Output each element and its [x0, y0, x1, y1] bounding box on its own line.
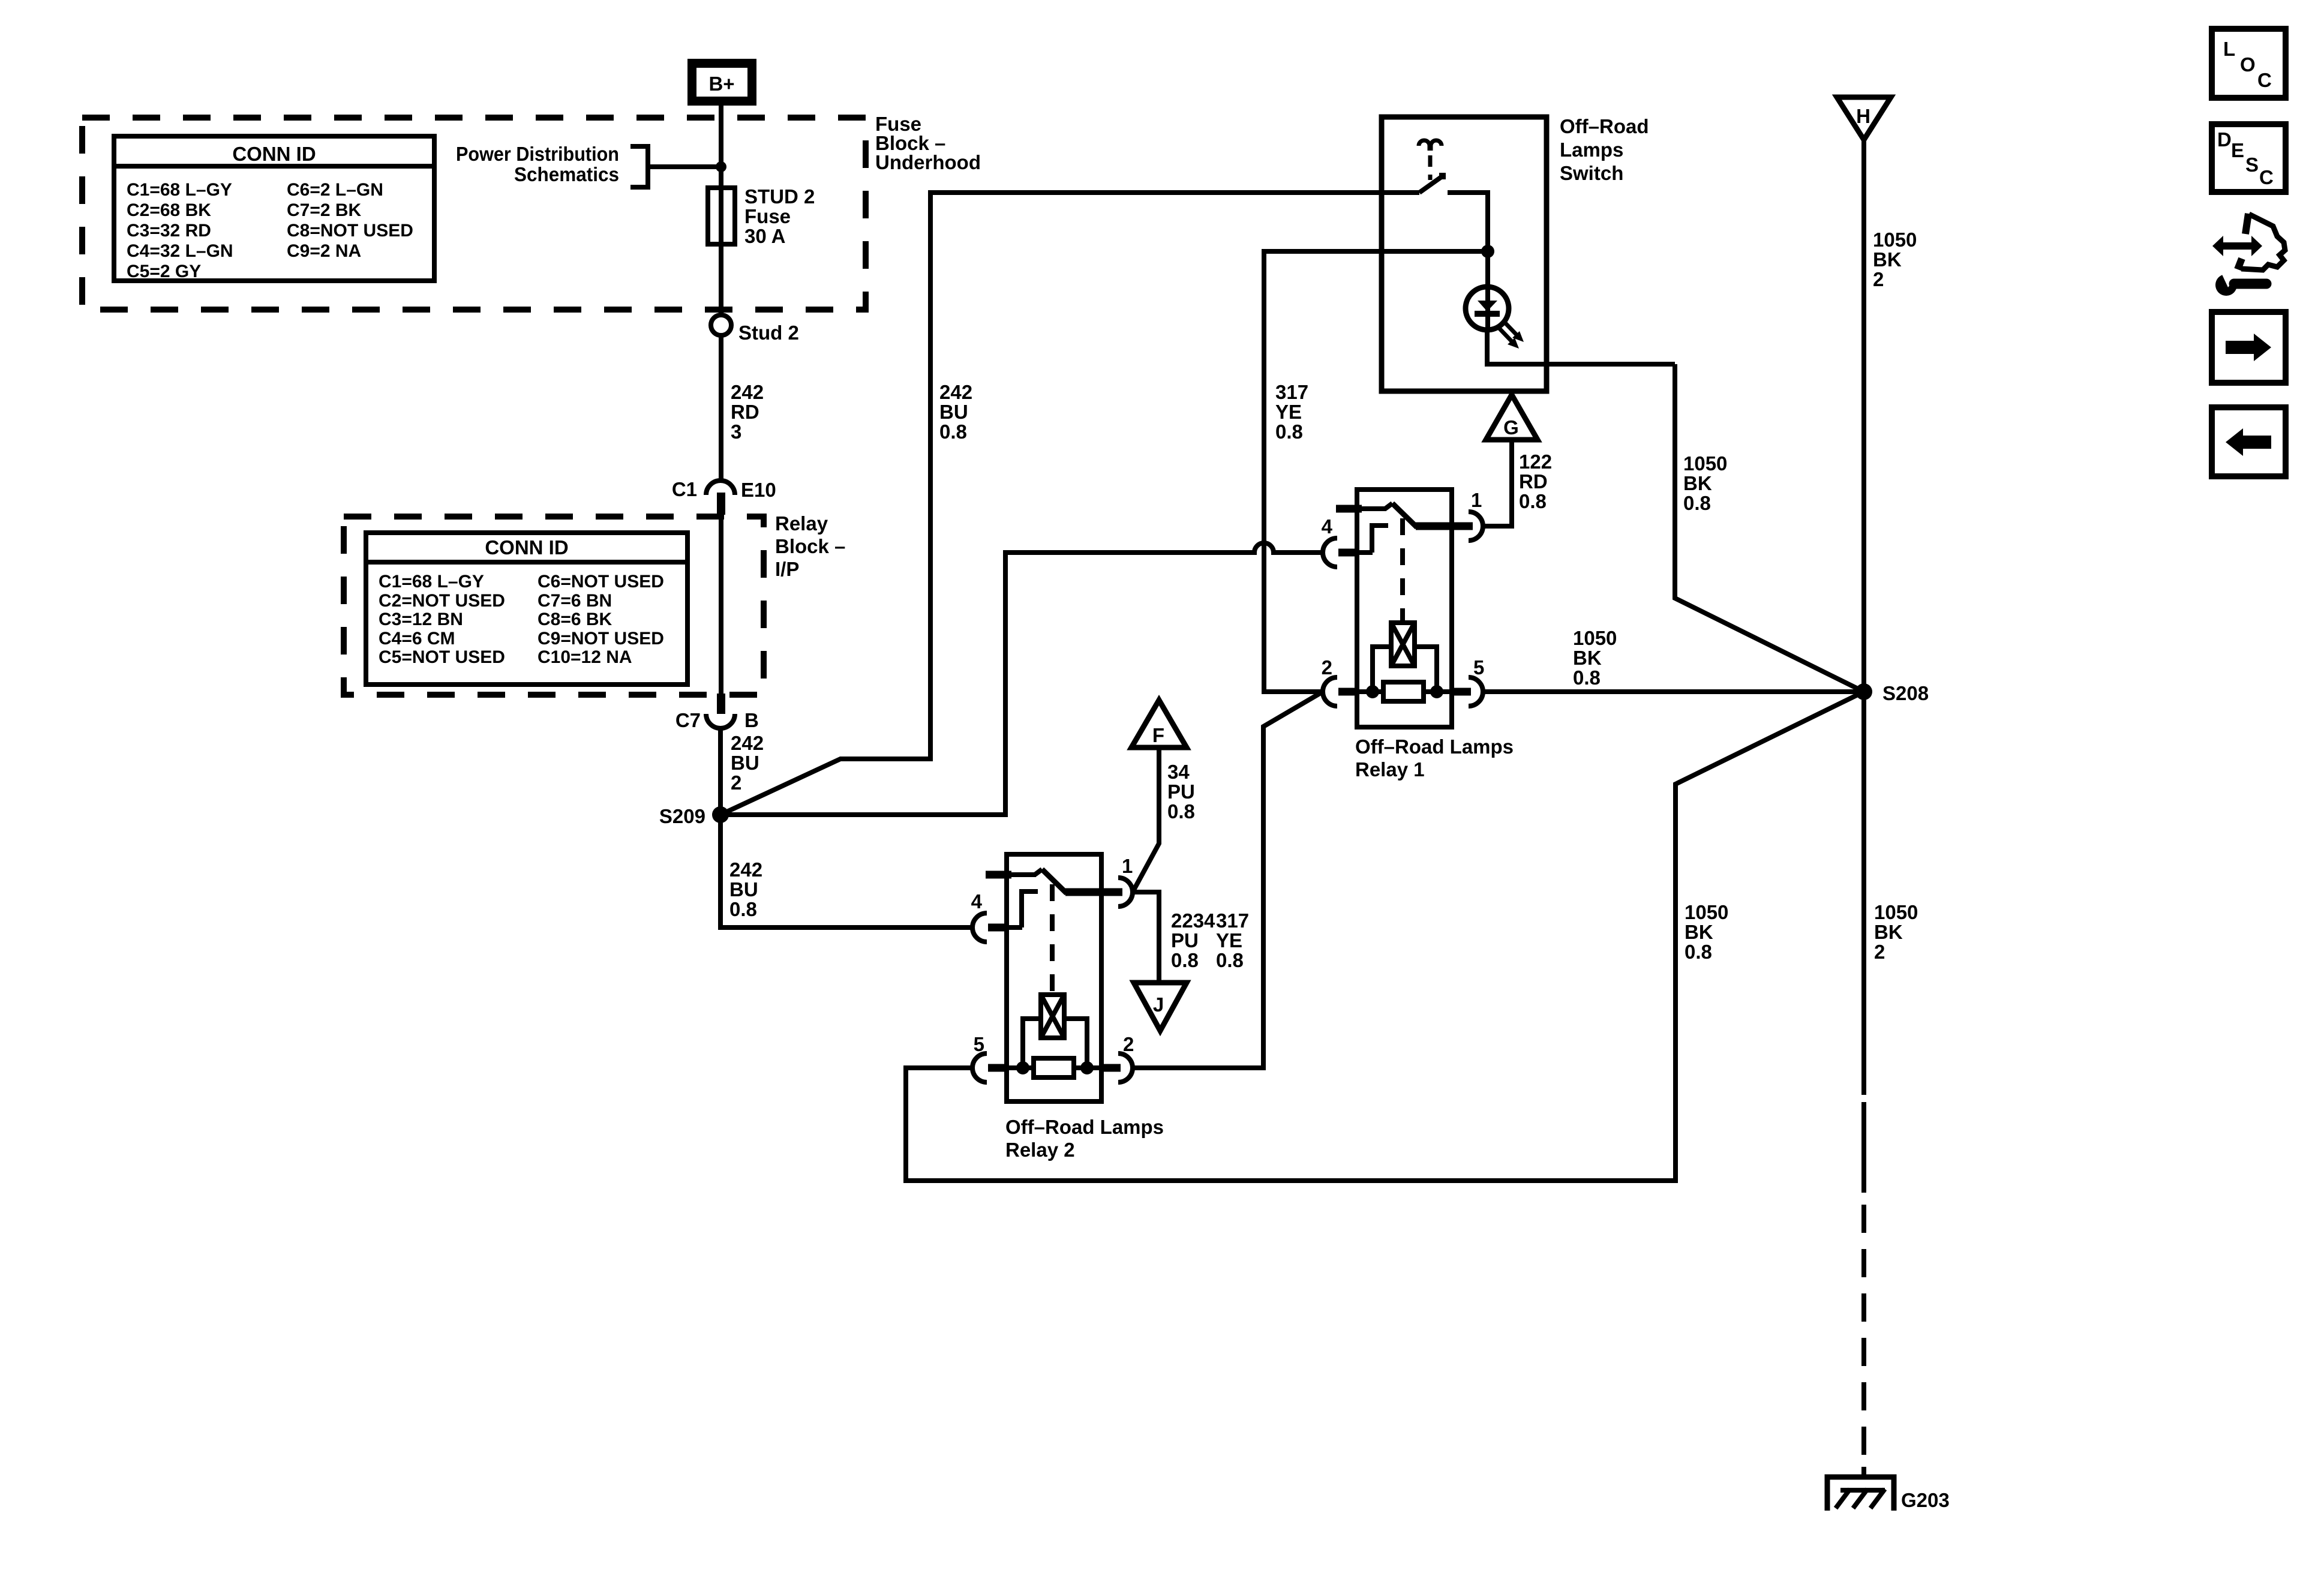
relay 1 (off-road lamps relay 1) — [1322, 489, 1514, 781]
svg-text:Off–Road: Off–Road — [1560, 115, 1649, 137]
junction dot on B+ feed — [716, 161, 726, 172]
wire B+ down through fuse to stud 2 — [719, 106, 723, 315]
connector H triangle — [1837, 97, 1891, 140]
svg-text:4: 4 — [1322, 515, 1333, 538]
power distribution schematics callout — [456, 143, 721, 187]
svg-text:2: 2 — [1873, 268, 1884, 290]
svg-text:E10: E10 — [741, 479, 776, 501]
stud 2 terminal — [711, 315, 799, 344]
label 122 RD 0.8 — [1519, 451, 1552, 512]
wire 317 YE: switch to relay 1 pin 2 — [1264, 251, 1488, 692]
svg-text:C3=12 BN: C3=12 BN — [379, 610, 463, 629]
wire S209 to off-road lamps switch (242 BU 0.8) — [720, 193, 1419, 815]
label 1050 BK 0.8 (switch return) — [1683, 452, 1727, 514]
relay block I/P dashed boundary — [344, 517, 764, 695]
connector G triangle — [1483, 395, 1538, 526]
off-road lamps switch box — [1382, 117, 1547, 391]
svg-text:2: 2 — [1123, 1033, 1134, 1055]
splice S208 — [1855, 682, 1929, 704]
svg-text:BK: BK — [1683, 472, 1712, 494]
svg-text:2: 2 — [1874, 941, 1885, 963]
label 34 PU 0.8 — [1167, 761, 1195, 822]
svg-text:1: 1 — [1122, 855, 1133, 877]
svg-text:Off–Road Lamps: Off–Road Lamps — [1355, 736, 1514, 758]
svg-text:C3=32 RD: C3=32 RD — [127, 221, 211, 241]
svg-text:1050: 1050 — [1685, 901, 1728, 923]
svg-text:0.8: 0.8 — [1519, 490, 1547, 512]
svg-text:Relay 1: Relay 1 — [1355, 758, 1425, 781]
svg-text:PU: PU — [1171, 929, 1199, 951]
switch detent symbol — [1419, 140, 1442, 180]
svg-text:BK: BK — [1573, 647, 1602, 669]
svg-text:RD: RD — [1519, 470, 1548, 493]
svg-text:C10=12 NA: C10=12 NA — [538, 647, 632, 667]
svg-text:0.8: 0.8 — [1216, 949, 1244, 971]
connector C1 / E10 — [672, 478, 776, 515]
svg-text:S209: S209 — [659, 805, 705, 827]
svg-text:2: 2 — [1322, 656, 1332, 679]
svg-text:C1=68 L–GY: C1=68 L–GY — [379, 572, 484, 592]
svg-text:1050: 1050 — [1873, 229, 1917, 251]
svg-text:2234: 2234 — [1171, 909, 1215, 932]
svg-text:C4=32 L–GN: C4=32 L–GN — [127, 241, 233, 261]
svg-text:0.8: 0.8 — [939, 421, 967, 443]
label 1050 BK 0.8 (relay 2 return) — [1685, 901, 1728, 963]
connector J triangle — [1134, 983, 1187, 1031]
svg-text:RD: RD — [731, 401, 759, 423]
svg-text:1: 1 — [1471, 489, 1482, 511]
connector F triangle — [1131, 700, 1187, 892]
svg-text:0.8: 0.8 — [1275, 421, 1303, 443]
indicator LED — [1466, 287, 1675, 364]
svg-text:F: F — [1152, 724, 1164, 746]
svg-text:BU: BU — [939, 401, 968, 423]
svg-text:C7=6 BN: C7=6 BN — [538, 591, 612, 611]
wire switch lamp return to S208 (1050 BK 0.8) — [1675, 364, 1864, 692]
icon next (right arrow) — [2212, 312, 2286, 383]
svg-text:Relay: Relay — [775, 512, 828, 535]
svg-text:E: E — [2231, 139, 2244, 161]
svg-text:0.8: 0.8 — [1685, 941, 1712, 963]
svg-text:0.8: 0.8 — [1167, 800, 1195, 822]
fuse block underhood dashed boundary — [82, 118, 866, 310]
svg-text:C: C — [2259, 166, 2274, 188]
junction dot inside switch — [1481, 245, 1494, 258]
svg-text:Block –: Block – — [775, 535, 845, 557]
wire relay 2 pin 5 to S208 (1050 BK 0.8) — [906, 692, 1864, 1181]
svg-text:Off–Road Lamps: Off–Road Lamps — [1005, 1116, 1164, 1138]
icon LOC — [2212, 29, 2286, 98]
label 317 YE 0.8 (lower) — [1216, 909, 1249, 971]
svg-text:C1=68 L–GY: C1=68 L–GY — [127, 180, 232, 200]
svg-text:1050: 1050 — [1573, 627, 1617, 649]
svg-text:YE: YE — [1216, 929, 1242, 951]
svg-text:BK: BK — [1873, 248, 1902, 271]
svg-text:242: 242 — [731, 381, 764, 403]
CONN ID table (fuse block) — [114, 136, 434, 281]
svg-text:C5=NOT USED: C5=NOT USED — [379, 647, 505, 667]
label Off-Road Lamps Switch — [1560, 115, 1649, 184]
svg-text:242: 242 — [729, 858, 762, 881]
svg-text:Fuse: Fuse — [744, 205, 791, 227]
label 1050 BK 0.8 (relay 1 to S208) — [1573, 627, 1617, 689]
svg-text:C6=NOT USED: C6=NOT USED — [538, 572, 664, 592]
svg-text:C2=NOT USED: C2=NOT USED — [379, 591, 505, 611]
svg-text:C9=NOT USED: C9=NOT USED — [538, 629, 664, 649]
svg-text:5: 5 — [1473, 656, 1484, 679]
svg-text:C8=6 BK: C8=6 BK — [538, 610, 612, 629]
wire C7 down to S209 — [718, 728, 723, 815]
svg-text:0.8: 0.8 — [1171, 949, 1199, 971]
svg-text:C5=2 GY: C5=2 GY — [127, 262, 201, 281]
label 242 BU 0.8 (to relay 2) — [729, 858, 762, 920]
svg-text:C9=2 NA: C9=2 NA — [287, 241, 361, 261]
svg-text:5: 5 — [974, 1033, 984, 1055]
svg-text:Relay 2: Relay 2 — [1005, 1139, 1075, 1161]
svg-text:Underhood: Underhood — [875, 151, 981, 173]
wire relay 1 pin 5 to S208 (1050 BK 0.8) — [1483, 689, 1864, 694]
svg-text:J: J — [1153, 993, 1164, 1016]
label 317 YE 0.8 (upper) — [1275, 381, 1308, 443]
svg-text:3: 3 — [731, 421, 741, 443]
svg-text:O: O — [2240, 53, 2256, 76]
svg-text:B+: B+ — [708, 73, 734, 95]
svg-text:YE: YE — [1275, 401, 1302, 423]
relay 2 (off-road lamps relay 2) — [971, 854, 1164, 1161]
svg-text:122: 122 — [1519, 451, 1552, 473]
label 242 BU 0.8 (riser to switch) — [939, 381, 972, 443]
svg-text:0.8: 0.8 — [1573, 667, 1601, 689]
LED light arrows — [1499, 321, 1524, 349]
label 1050 BK 2 (lower) — [1874, 901, 1918, 963]
svg-text:CONN ID: CONN ID — [232, 143, 316, 165]
svg-text:BK: BK — [1685, 921, 1713, 943]
switch output wire to lamp — [1448, 193, 1488, 287]
wire through relay block — [719, 515, 723, 695]
svg-text:317: 317 — [1275, 381, 1308, 403]
label 1050 BK 2 (upper) — [1873, 229, 1917, 290]
svg-text:BU: BU — [729, 878, 758, 900]
svg-text:STUD 2: STUD 2 — [744, 185, 815, 208]
svg-text:G: G — [1503, 416, 1519, 439]
wire S209 to relay 1 pin 4 with hop over 317 YE — [720, 543, 1323, 815]
ground G203 — [1827, 1467, 1950, 1511]
svg-text:242: 242 — [939, 381, 972, 403]
svg-text:L: L — [2223, 38, 2235, 60]
splice S209 — [659, 805, 729, 827]
label Relay Block - I/P — [775, 512, 845, 580]
svg-text:Switch: Switch — [1560, 162, 1623, 184]
svg-text:PU: PU — [1167, 781, 1195, 803]
svg-text:S: S — [2245, 154, 2259, 176]
svg-text:Stud 2: Stud 2 — [738, 322, 799, 344]
label 242 RD 3 — [731, 381, 764, 443]
svg-text:C4=6 CM: C4=6 CM — [379, 629, 455, 649]
svg-text:B: B — [744, 709, 759, 731]
svg-text:0.8: 0.8 — [1683, 492, 1711, 514]
CONN ID table (relay block) — [366, 533, 687, 685]
label Fuse Block - Underhood — [875, 113, 981, 173]
icon service info (double arrow, part outline, wrench) — [2212, 214, 2285, 296]
wire relay 2 pin 1 to J — [1134, 892, 1159, 983]
label 2234 PU 0.8 — [1171, 909, 1215, 971]
svg-text:C2=68 BK: C2=68 BK — [127, 200, 211, 220]
icon back (left arrow) — [2212, 407, 2286, 476]
svg-text:C7=2 BK: C7=2 BK — [287, 200, 362, 220]
svg-text:C1: C1 — [672, 478, 697, 500]
svg-text:Lamps: Lamps — [1560, 139, 1623, 161]
svg-text:CONN ID: CONN ID — [485, 536, 568, 559]
svg-text:1050: 1050 — [1683, 452, 1727, 475]
wire S208 down toward ground — [1861, 692, 1866, 1473]
svg-text:242: 242 — [731, 732, 764, 754]
svg-text:4: 4 — [971, 890, 983, 912]
connector C7 / B — [675, 694, 759, 731]
svg-text:G203: G203 — [1901, 1489, 1950, 1511]
svg-text:1050: 1050 — [1874, 901, 1918, 923]
svg-text:2: 2 — [731, 772, 741, 794]
wire 317 YE: relay 1 pin 2 to relay 2 pin 2 — [1134, 692, 1323, 1068]
battery feed symbol B+ — [687, 59, 756, 106]
svg-text:0.8: 0.8 — [729, 898, 757, 920]
wire stud 2 down to connector C1 — [719, 335, 723, 481]
svg-text:C8=NOT USED: C8=NOT USED — [287, 221, 413, 241]
wire H down to S208 (1050 BK 2) — [1861, 140, 1866, 692]
svg-text:317: 317 — [1216, 909, 1249, 932]
svg-text:I/P: I/P — [775, 558, 799, 580]
svg-text:C: C — [2257, 69, 2272, 91]
fuse STUD 2 30 A — [708, 185, 815, 247]
wire S209 down to relay 2 pin 4 — [720, 815, 972, 927]
svg-text:BU: BU — [731, 752, 759, 774]
svg-text:C7: C7 — [675, 709, 701, 731]
svg-text:D: D — [2217, 128, 2232, 151]
svg-text:H: H — [1856, 105, 1870, 127]
svg-text:BK: BK — [1874, 921, 1903, 943]
label 242 BU 2 — [731, 732, 764, 794]
svg-text:30 A: 30 A — [744, 225, 785, 247]
svg-text:Schematics: Schematics — [514, 163, 619, 185]
svg-text:C6=2 L–GN: C6=2 L–GN — [287, 180, 383, 200]
svg-text:S208: S208 — [1882, 682, 1929, 704]
switch blade — [1419, 173, 1446, 193]
svg-text:34: 34 — [1167, 761, 1190, 783]
icon DESC — [2212, 124, 2286, 192]
svg-text:Power Distribution: Power Distribution — [456, 143, 619, 165]
